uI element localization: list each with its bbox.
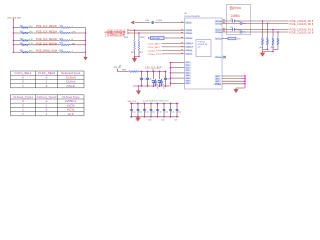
pin 16 CLKout0 <box>215 20 222 22</box>
junction gnd tie <box>244 80 246 82</box>
wire crystal to pin <box>149 37 151 39</box>
junction gnd tie <box>244 78 246 80</box>
junction R63 <box>272 29 273 30</box>
wire bus vertical <box>12 20 14 53</box>
capacitor C22 <box>240 22 242 25</box>
wire CLKout1a <box>222 29 289 31</box>
junction R62 <box>267 23 268 24</box>
svg-text:0.1u: 0.1u <box>142 79 146 81</box>
svg-text:Hi-Z: Hi-Z <box>68 112 74 116</box>
junction bank2 bot 6 <box>170 116 172 118</box>
wire power pin 4 <box>171 72 185 74</box>
pin number CLKout_TYP0 <box>181 49 183 50</box>
svg-text:0.1u: 0.1u <box>145 112 149 114</box>
capacitor C44 <box>157 104 159 110</box>
junction bank2 bot 2 <box>144 116 146 118</box>
pin GND right 1 <box>215 78 222 80</box>
resistor R44 <box>59 44 70 46</box>
wire row 5 <box>13 51 20 53</box>
junction power <box>170 77 172 79</box>
capacitor C41 <box>137 104 139 110</box>
svg-text:CLKout2: CLKout2 <box>215 37 222 40</box>
wire CLKin0 <box>130 29 185 31</box>
capacitor C47 <box>176 104 178 110</box>
junction gnd tie <box>244 83 246 85</box>
svg-text:更换为0Ω: 更换为0Ω <box>230 6 242 10</box>
ground bank1 <box>138 89 140 92</box>
svg-text:CLKin_SEL1: CLKin_SEL1 <box>148 47 161 49</box>
wire CLKout_TYP1 <box>162 53 185 55</box>
ground bank2 <box>137 117 139 118</box>
resistor R62 <box>266 37 268 45</box>
svg-text:CLKin_S: CLKin_S <box>186 47 194 49</box>
capacitor C39 <box>160 79 163 86</box>
wire row 1 <box>13 27 20 29</box>
wire bank1 label stub <box>117 69 119 72</box>
pin number CLKout_TYP1 <box>181 53 183 54</box>
svg-text:0.1u: 0.1u <box>178 112 182 114</box>
wire osc line <box>135 22 150 24</box>
capacitor C46 <box>170 104 172 110</box>
resistor R33 <box>21 40 29 42</box>
ground terms right <box>262 52 264 53</box>
wire bank1 rail top <box>118 71 129 73</box>
pin number CLKin_SEL1 <box>181 46 183 47</box>
pin number CLKin_SEL0 <box>181 42 183 43</box>
wire bank2 rail top <box>130 103 179 105</box>
svg-text:PCIE_CLK100_N: PCIE_CLK100_N <box>108 33 126 35</box>
resistor R41 <box>59 27 70 29</box>
svg-text:CDCLVC1106PW: CDCLVC1106PW <box>184 16 200 18</box>
junction power <box>170 67 172 69</box>
wire drop R term 2 <box>138 33 140 39</box>
wire drop R64 <box>277 32 279 37</box>
wire CLKin1 <box>130 32 185 34</box>
pin 3 CLKin1 <box>185 32 192 34</box>
wire power tie vertical <box>170 63 172 87</box>
svg-text:0.1u: 0.1u <box>166 79 170 81</box>
junction bank1 bot 1 <box>147 85 149 87</box>
wire gnd pin 1 <box>222 78 245 80</box>
svg-text:PCIE_CLK_REQ0#: PCIE_CLK_REQ0# <box>36 25 57 28</box>
svg-text:0.1uF: 0.1uF <box>157 20 163 22</box>
junction power <box>170 62 172 64</box>
capacitor C24 <box>240 31 242 34</box>
capacitor C21 <box>233 20 235 23</box>
IC U6 body <box>185 18 223 89</box>
pin CLKout2 nc <box>215 37 222 39</box>
svg-text:1: 1 <box>72 51 73 53</box>
svg-text:0.1u: 0.1u <box>154 84 158 86</box>
junction bus row 5 <box>13 51 14 52</box>
resistor R60 <box>128 71 139 73</box>
junction bank2 top 7 <box>176 103 178 105</box>
svg-text:CLKout_: CLKout_ <box>186 53 194 56</box>
junction bank1 col 3 <box>159 71 161 73</box>
svg-text:PCIE_CLK100_P: PCIE_CLK100_P <box>108 30 126 32</box>
pin power <box>185 69 191 71</box>
svg-text:C45: C45 <box>161 120 164 122</box>
wire gnd pin 2 <box>222 80 245 82</box>
junction R61 <box>262 20 263 21</box>
wire term join right <box>262 45 264 52</box>
svg-text:CLKout1: CLKout1 <box>215 31 222 34</box>
wire CLKout1b <box>222 31 289 33</box>
wire bank2 rail bottom <box>130 116 179 118</box>
wire power pin 0 <box>171 62 185 64</box>
wire drop R63 <box>272 30 274 38</box>
junction bank2 top 6 <box>170 103 172 105</box>
junction bank2 bot 1 <box>137 116 139 118</box>
DNI box <box>227 5 251 35</box>
junction bus row 3 <box>13 40 14 41</box>
pin 15 CLKout0 <box>215 22 222 24</box>
svg-text:CLKout0: CLKout0 <box>215 22 222 25</box>
svg-text:3.3V_CLK_BUF: 3.3V_CLK_BUF <box>145 67 162 69</box>
pin 1 OSCin <box>185 21 192 23</box>
wire drop R term 1 <box>134 30 136 39</box>
wire row 2 <box>13 32 20 34</box>
resistor R63 <box>272 37 274 45</box>
svg-text:0.1u: 0.1u <box>148 79 152 81</box>
junction tie <box>85 44 86 45</box>
junction term <box>134 56 135 57</box>
junction bank1 col 4 <box>165 71 167 73</box>
svg-text:1u: 1u <box>163 88 165 90</box>
junction bank1 bot 0 <box>141 85 143 87</box>
svg-text:3V3_PCIE_BUF: 3V3_PCIE_BUF <box>7 17 22 19</box>
table1 grid <box>11 71 85 88</box>
svg-text:0.1u: 0.1u <box>160 84 164 86</box>
svg-text:CLKout_: CLKout_ <box>186 49 194 52</box>
wire crystal to OSCout pin <box>177 37 185 39</box>
pin power <box>185 72 191 74</box>
pin box CLKin_SEL0 <box>185 42 192 44</box>
svg-text:OSCin: OSCin <box>186 22 192 24</box>
wire label stub bank1 <box>152 69 154 72</box>
pin CLKout3 nc x <box>215 56 222 58</box>
pin 13 CLKout1 <box>215 31 222 33</box>
pin power <box>185 75 191 77</box>
junction bank2 top 1 <box>137 103 139 105</box>
junction R64 <box>277 31 278 32</box>
junction bank2 bot 7 <box>176 116 178 118</box>
capacitor C43 <box>150 104 152 110</box>
resistor R64 <box>277 37 279 45</box>
svg-text:OSCin: OSCin <box>66 84 75 88</box>
pin 1 number <box>181 22 183 23</box>
junction term right <box>267 49 269 51</box>
pin GND right 2 <box>215 80 222 82</box>
svg-text:1: 1 <box>72 26 73 28</box>
wire CLKout_TYP0 <box>162 49 185 51</box>
svg-text:X: X <box>45 84 47 88</box>
resistor R43 <box>59 40 70 42</box>
junction bank1 col 0 <box>141 71 143 73</box>
junction bank2 bot 4 <box>157 116 159 118</box>
junction bus row 2 <box>13 32 14 33</box>
svg-text:1u: 1u <box>157 88 159 90</box>
svg-text:0.1u: 0.1u <box>152 112 156 114</box>
svg-text:CLKin_SEL0: CLKin_SEL0 <box>148 43 161 45</box>
wire drop R62 <box>267 24 269 38</box>
capacitor C45 <box>163 104 165 110</box>
pin power <box>185 77 191 79</box>
svg-text:0.1u: 0.1u <box>165 112 169 114</box>
capacitor C38 <box>154 79 157 86</box>
svg-text:0.1u: 0.1u <box>139 112 143 114</box>
pin 14 CLKout1 <box>215 28 222 30</box>
junction power <box>170 83 172 85</box>
junction bank2 bot 3 <box>150 116 152 118</box>
wire CLKout0a <box>222 20 289 22</box>
wire bank1 rail bottom <box>133 85 171 87</box>
svg-text:PCIE_WAKE_3V3#: PCIE_WAKE_3V3# <box>36 50 57 53</box>
svg-text:0.1u: 0.1u <box>243 32 246 34</box>
wire CLKin_SEL0 <box>162 42 185 44</box>
junction CLKin1 <box>138 32 139 33</box>
ferrite bead FB1 <box>228 37 236 40</box>
wire bank2 gnd stub <box>137 116 138 117</box>
wire term join <box>134 50 136 57</box>
junction bank2 top 5 <box>163 103 165 105</box>
svg-text:CLKout_TYP1: CLKout_TYP1 <box>148 53 162 56</box>
IC U6 inner logo box <box>196 40 211 57</box>
resistor R61 <box>261 37 263 45</box>
wire power pin 6 <box>171 77 185 79</box>
svg-text:PCIE_CLK_REQ1#: PCIE_CLK_REQ1# <box>36 31 57 34</box>
svg-text:CLKin_S: CLKin_S <box>186 43 194 45</box>
svg-text:CLKin0: CLKin0 <box>186 30 192 32</box>
pin power <box>185 64 191 66</box>
junction bus row 4 <box>13 44 14 45</box>
svg-text:交流耦合: 交流耦合 <box>231 14 241 18</box>
table2 grid <box>11 95 85 116</box>
pin 2 CLKin0 <box>185 29 192 31</box>
junction power <box>170 72 172 74</box>
capacitor C40 <box>131 104 133 110</box>
svg-text:OSCout: OSCout <box>186 37 193 40</box>
wire gnd pin 0 <box>222 75 245 77</box>
svg-text:49.9: 49.9 <box>271 47 275 49</box>
capacitor C31 <box>147 72 149 79</box>
junction bank2 bot 5 <box>163 116 165 118</box>
svg-text:PCIE_CLK_REQ2#: PCIE_CLK_REQ2# <box>36 38 57 41</box>
svg-text:0.1u: 0.1u <box>132 112 136 114</box>
pin power <box>185 80 191 82</box>
svg-text:LVL_SEL: LVL_SEL <box>214 84 222 86</box>
junction bank1 col 2 <box>153 71 155 73</box>
capacitor C30 <box>141 72 143 79</box>
resistor R52 <box>138 39 140 50</box>
capacitor C34 <box>165 72 167 79</box>
wire power pin 8 <box>171 82 185 84</box>
svg-text:0.1u: 0.1u <box>171 112 175 114</box>
junction bank2 top 0 <box>131 103 133 105</box>
junction bank1 bot 2 <box>153 85 155 87</box>
capacitor C32 <box>153 72 155 80</box>
svg-text:PCIE_CLK100_N1 8: PCIE_CLK100_N1 8 <box>290 30 314 34</box>
junction tie <box>85 51 86 52</box>
resistor R31 <box>21 27 29 29</box>
power arrow OSC line <box>131 21 134 24</box>
resistor R51 <box>134 39 136 50</box>
junction bank1 col 1 <box>147 71 149 73</box>
wire right tie vertical <box>85 28 87 57</box>
junction bus row 1 <box>13 27 14 28</box>
wire drop R61 <box>262 21 264 37</box>
wire CLKout0b <box>222 23 289 25</box>
svg-text:0.1u: 0.1u <box>158 112 162 114</box>
pin box CLKin_SEL1 <box>185 46 192 48</box>
ground terminators <box>134 57 136 59</box>
resistor R32 <box>21 32 29 34</box>
pin 4 number <box>181 37 183 38</box>
capacitor C16 <box>152 21 153 24</box>
crystal Y1 box <box>151 36 165 40</box>
ground <box>85 56 87 59</box>
pin power <box>185 67 191 69</box>
wire CLKin_SEL1 <box>162 46 185 48</box>
resistor R45 <box>59 51 70 53</box>
junction bank2 top 2 <box>144 103 146 105</box>
svg-text:CLKout_TYP0: CLKout_TYP0 <box>148 49 162 52</box>
svg-text:PCIE_CLK_REQ3#: PCIE_CLK_REQ3# <box>36 42 57 45</box>
wire gnd tie vertical right <box>244 76 246 88</box>
svg-text:CLKin1: CLKin1 <box>186 33 192 35</box>
junction bank1 bot 3 <box>159 85 161 87</box>
wire row 4 <box>13 44 20 46</box>
wire to OSCin pin <box>177 22 185 24</box>
junction bank2 bot 0 <box>131 116 133 118</box>
resistor R42 <box>59 32 70 34</box>
wire row 3 <box>13 39 20 41</box>
junction tie <box>85 40 86 41</box>
junction CLKin0 <box>134 29 135 30</box>
capacitor C42 <box>144 104 146 110</box>
wire gnd tie bottom <box>236 87 245 89</box>
svg-text:3V3_CLK: 3V3_CLK <box>128 101 137 103</box>
pin GND right 3 <box>215 83 222 85</box>
pin power <box>185 82 191 84</box>
svg-text:0.1u: 0.1u <box>243 23 246 25</box>
svg-text:C43: C43 <box>148 120 151 122</box>
junction tie <box>85 32 86 33</box>
wire CLKout2 <box>222 38 228 40</box>
pin box CLKout_TYP0 <box>185 49 192 51</box>
capacitor C33 <box>159 72 161 80</box>
wire power pin 2 <box>171 67 185 69</box>
pin OSCout <box>185 37 192 39</box>
resistor R35 <box>21 51 29 53</box>
svg-text:OSC 25M: OSC 25M <box>152 38 160 40</box>
svg-text:DNI: DNI <box>237 38 241 40</box>
svg-text:R68: R68 <box>122 70 125 72</box>
pin GND right 0 <box>215 75 222 77</box>
junction bank2 top 3 <box>150 103 152 105</box>
capacitor C23 <box>233 28 235 31</box>
svg-text:GND: GND <box>186 83 191 85</box>
svg-text:C47: C47 <box>174 120 177 122</box>
pin power <box>185 62 191 64</box>
junction bank2 top 4 <box>157 103 159 105</box>
svg-text:PCIE_CLK100_N0 8: PCIE_CLK100_N0 8 <box>290 22 314 26</box>
pin box CLKout_TYP1 <box>185 53 192 55</box>
ground right <box>235 88 237 89</box>
junction gnd tie <box>244 75 246 77</box>
wire gnd pin 3 <box>222 83 245 85</box>
junction bank1 bot 4 <box>165 85 167 87</box>
resistor R34 <box>21 44 29 46</box>
svg-text:CLKout3: CLKout3 <box>215 56 222 59</box>
wire bank1 gnd stub <box>138 86 140 91</box>
svg-text:0.1uF X5R 10V 0402 C0G: 0.1uF X5R 10V 0402 C0G <box>143 101 169 103</box>
